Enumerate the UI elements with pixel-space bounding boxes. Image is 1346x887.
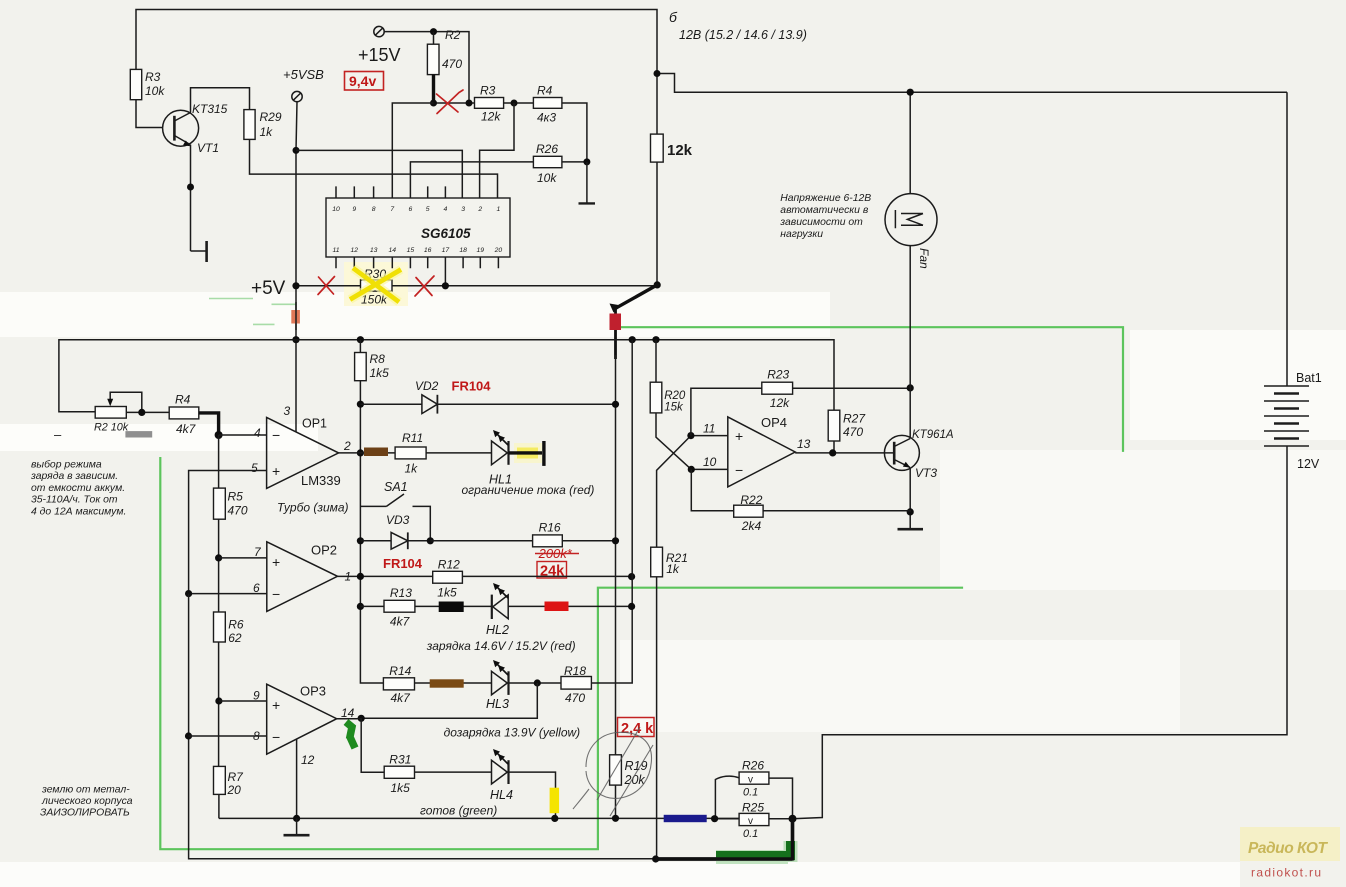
svg-text:R5: R5	[228, 490, 244, 504]
resistor R3 12k (horizontal)	[475, 98, 504, 109]
wire + node after R3	[504, 102, 534, 104]
resistor R13 4k7	[357, 603, 364, 610]
faint green dashes	[209, 299, 296, 325]
wire: OP4 pin10	[691, 468, 728, 470]
thick diagonal mod wire from +5V rail corner	[617, 285, 658, 308]
svg-text:6: 6	[409, 206, 413, 213]
wire: step from б node to 12В output line	[657, 74, 1287, 93]
marker: black blob after R13	[439, 602, 464, 613]
wire: R4 node down to R5	[218, 435, 220, 818]
svg-text:R31: R31	[389, 753, 411, 767]
op-amp OP1 (LM339)	[267, 417, 339, 488]
resistor 12k (top right)	[651, 134, 664, 162]
wire: OP4 output to VT3 base	[795, 452, 894, 454]
wire: R21 down to bottom wire	[656, 577, 658, 859]
wire: pot to R4	[126, 411, 169, 413]
resistor R20 15k	[655, 340, 657, 383]
svg-text:OP1: OP1	[302, 417, 327, 431]
ground (VT3 emitter)	[898, 528, 924, 531]
wire: OP3 pin9	[219, 700, 267, 702]
wire: R3 to VT1 base	[136, 100, 163, 128]
svg-text:12k: 12k	[481, 110, 501, 124]
svg-text:14: 14	[341, 706, 355, 720]
svg-text:выбор режима: выбор режима	[31, 458, 102, 470]
wire: OP3 output	[337, 718, 362, 720]
wire: VT3 collector up to fan	[909, 245, 911, 438]
wire: R22 right to VT3 emitter	[763, 511, 910, 512]
svg-text:10: 10	[703, 455, 717, 469]
LED HL1	[492, 441, 508, 465]
svg-text:VD3: VD3	[386, 513, 410, 527]
wire: R26 right node	[562, 161, 587, 163]
text block: землю от корпуса	[40, 785, 133, 819]
resistor R26 10k	[533, 156, 562, 167]
wire: OP1 output to R11	[339, 452, 396, 454]
LED HL4	[492, 760, 508, 784]
text block: выбор режима	[30, 458, 126, 517]
marker: red blob after HL2	[545, 602, 569, 612]
wire: R23 right to VT3 collector	[793, 387, 911, 389]
wire: OP2 output	[338, 575, 433, 577]
svg-text:R23: R23	[767, 368, 789, 382]
svg-text:12В (15.2 / 14.6 / 13.9): 12В (15.2 / 14.6 / 13.9)	[679, 28, 807, 42]
svg-text:470: 470	[228, 504, 248, 518]
SG6105 unconnected top pin stubs 10 9 8 5 4	[336, 186, 445, 198]
wire: VT1 emitter down	[190, 145, 192, 251]
wire: +5VSB vertical down to OP1 pin3	[296, 102, 297, 432]
ground (OP3 pin 12)	[296, 818, 298, 835]
svg-text:VD2: VD2	[415, 379, 439, 393]
op-amp OP2	[267, 542, 338, 612]
svg-text:7: 7	[390, 206, 394, 213]
svg-text:15k: 15k	[664, 402, 684, 414]
wire: VD3 node to R16	[430, 540, 532, 542]
svg-text:10k: 10k	[537, 171, 557, 185]
wire: R26 left to SG6105 pin 6	[410, 162, 533, 198]
svg-text:землю от метал-: землю от метал-	[41, 785, 130, 796]
resistor R8 1k5	[359, 340, 361, 353]
wire: OP3 pin12 ground lead	[296, 740, 298, 819]
wire: HL2 to right column	[508, 605, 631, 607]
wire: R12 to right column	[462, 575, 631, 577]
wire: OP1 pin5 to left column	[189, 471, 267, 594]
svg-text:R29: R29	[260, 110, 282, 124]
svg-text:−: −	[272, 586, 280, 602]
svg-text:+5V: +5V	[251, 278, 286, 299]
marker: brown blob after R14	[430, 679, 464, 687]
wire: R2 bottom to SG6105 pin 7	[392, 103, 433, 198]
svg-text:автоматически в: автоматически в	[780, 205, 869, 216]
resistor R14 4k7	[383, 678, 414, 690]
wire: +5VSB rail down through +5V rail	[292, 336, 299, 343]
svg-text:OP2: OP2	[311, 543, 337, 558]
text: Напряжение 6-12В	[779, 193, 871, 240]
wire: R2 bottom node across (cut by red X)	[434, 102, 475, 104]
green marker line right	[619, 327, 1123, 452]
resistor R31 1k5	[384, 766, 414, 778]
wire: HL4 down to ground rail	[509, 772, 556, 818]
fan motor	[885, 194, 937, 246]
label 9,4v red box	[345, 72, 384, 91]
wire: R23 left to pin11	[691, 388, 762, 435]
svg-text:3: 3	[284, 404, 291, 418]
marker: gray blob under R2 10k	[125, 431, 152, 437]
terminal screw +5VSB	[292, 91, 302, 101]
node б junction dot	[654, 70, 661, 77]
svg-text:12k: 12k	[770, 396, 790, 410]
svg-text:б: б	[669, 9, 678, 25]
svg-text:12: 12	[301, 753, 315, 767]
node OP3 pin9	[215, 697, 222, 704]
svg-text:R6: R6	[228, 618, 244, 632]
wire: R31 to HL4	[415, 771, 492, 773]
svg-text:HL4: HL4	[490, 788, 513, 802]
svg-text:R8: R8	[370, 352, 386, 366]
wire: node б top loop from R3 to top-right corner	[136, 10, 657, 74]
resistor R4 4к3	[533, 98, 562, 109]
svg-text:radiokot.ru: radiokot.ru	[1251, 866, 1321, 880]
wire: below red mark down the main sense line	[614, 308, 617, 359]
svg-text:1: 1	[497, 206, 501, 213]
svg-text:v: v	[748, 816, 753, 827]
svg-text:+15V: +15V	[358, 45, 401, 65]
svg-text:лического корпуса: лического корпуса	[41, 796, 133, 807]
svg-text:R11: R11	[402, 431, 423, 445]
marker: salmon blob on +5V column	[291, 310, 300, 324]
wire: OP3 pin8	[189, 735, 267, 737]
svg-text:R27: R27	[843, 412, 866, 426]
wire: R3/R4 node to SG6105 pin 2	[480, 103, 514, 198]
wire: R4 right thick to OP1 pin4 node	[199, 413, 219, 435]
svg-text:4k7: 4k7	[391, 691, 412, 705]
wire: OP1 pin4	[219, 434, 267, 436]
resistor R3 10k (top left)	[130, 69, 141, 99]
svg-text:17: 17	[442, 247, 450, 254]
svg-text:FR104: FR104	[383, 556, 423, 571]
wire: OP4 pin11	[691, 435, 728, 437]
svg-text:нагрузки: нагрузки	[780, 229, 823, 240]
label 24k red box	[537, 562, 567, 579]
wire: R2 bottom thick lead	[432, 75, 435, 103]
svg-text:SG6105: SG6105	[421, 226, 471, 241]
op-amp OP4	[728, 417, 795, 487]
svg-text:4k7: 4k7	[176, 422, 197, 436]
svg-text:−: −	[272, 427, 280, 443]
SG6105 bottom pin stubs 11-20	[336, 257, 498, 268]
marker: green squiggle at OP3 output	[346, 722, 355, 748]
svg-text:VT3: VT3	[915, 466, 937, 480]
marker: brown blob at OP1 output	[364, 448, 388, 457]
svg-text:OP3: OP3	[300, 684, 326, 699]
svg-text:2k4: 2k4	[741, 519, 762, 533]
svg-text:62: 62	[228, 631, 242, 645]
wire: R26 right down to node	[769, 778, 793, 819]
svg-text:Fan: Fan	[917, 248, 931, 269]
svg-text:Турбо (зима): Турбо (зима)	[277, 501, 349, 515]
resistor R18 470	[561, 677, 591, 690]
wire: HL3 to R18	[509, 682, 562, 684]
svg-text:Радио КОТ: Радио КОТ	[1248, 840, 1329, 857]
svg-text:R26: R26	[742, 759, 764, 773]
wire: +5VSB to SG6105 pin 3	[296, 150, 462, 198]
svg-text:15: 15	[407, 247, 415, 254]
marker: navy blob on ground rail	[664, 815, 707, 822]
wire: +15V to R2 and to R3 12k	[384, 32, 469, 103]
shunt resistor R26 0.1	[739, 772, 769, 784]
svg-text:R25: R25	[742, 801, 764, 815]
wire: OP2 pin6	[189, 593, 267, 595]
diode VD3 FR104	[357, 537, 364, 544]
wire: output bus vertical	[360, 381, 383, 683]
wire: R25 leads	[715, 818, 793, 820]
label 2,4 k red box	[618, 718, 655, 737]
wire: OP2 pin7	[219, 557, 267, 559]
svg-text:470: 470	[843, 425, 863, 439]
wire: OP3 output down to R31	[361, 718, 384, 772]
svg-text:HL3: HL3	[486, 697, 509, 711]
LED HL2 (points left)	[491, 595, 493, 619]
resistor R12 1k5	[433, 571, 463, 583]
svg-text:9: 9	[352, 206, 356, 213]
svg-text:18: 18	[459, 247, 467, 254]
SG6105 pin numbers top row	[332, 206, 500, 213]
node +5VSB junction	[293, 147, 300, 154]
wire: comparator supply rail	[59, 340, 834, 412]
wire: R26 left squiggle down to node	[715, 776, 739, 819]
wire: R27 bottom to output line	[833, 441, 835, 453]
wire: VT1 collector to R29 top	[191, 88, 250, 113]
svg-text:1k: 1k	[405, 462, 419, 476]
svg-text:+: +	[272, 697, 280, 713]
svg-text:ЗАИЗОЛИРОВАТЬ: ЗАИЗОЛИРОВАТЬ	[40, 807, 130, 818]
diode VD2 FR104	[360, 403, 422, 405]
resistor R23 12k	[762, 382, 793, 394]
svg-text:13: 13	[797, 437, 811, 451]
svg-text:зависимости от: зависимости от	[779, 217, 863, 228]
svg-text:R13: R13	[390, 586, 412, 600]
resistor R16	[533, 535, 563, 547]
svg-text:+5VSB: +5VSB	[283, 67, 324, 82]
svg-text:4: 4	[254, 426, 261, 440]
SG6105 pin numbers bottom row	[332, 247, 502, 254]
svg-text:R18: R18	[564, 664, 586, 678]
svg-text:5: 5	[426, 206, 430, 213]
wire: left column down to bottom	[189, 594, 656, 859]
svg-text:1k5: 1k5	[370, 366, 390, 380]
svg-text:+: +	[272, 463, 280, 479]
svg-text:R16: R16	[539, 521, 561, 535]
wire: R13 to HL2	[415, 605, 492, 607]
resistor R6 62	[214, 612, 226, 642]
resistor R11 1k	[395, 447, 426, 459]
marker: yellow bar at HL4	[550, 788, 560, 814]
potentiometer R2 10k	[95, 407, 126, 419]
shunt resistor R25 0.1	[739, 813, 769, 825]
svg-text:v: v	[748, 775, 753, 786]
svg-text:470: 470	[442, 57, 462, 71]
resistor R5 470	[214, 488, 226, 519]
watermark radiokot	[1240, 827, 1340, 861]
yellow X over R30	[350, 268, 401, 302]
wire: R20 bottom diagonal to OP4 pin10	[656, 413, 691, 470]
svg-text:VT1: VT1	[197, 141, 219, 155]
svg-text:2: 2	[343, 439, 351, 453]
svg-text:зарядка 14.6V / 15.2V (red): зарядка 14.6V / 15.2V (red)	[426, 639, 576, 653]
marker: yellow highlight on HL1 wire	[517, 448, 538, 459]
svg-text:+: +	[735, 428, 743, 444]
wire: fan top to 12В line	[909, 92, 911, 193]
svg-text:1k5: 1k5	[437, 586, 457, 600]
svg-text:8: 8	[372, 206, 376, 213]
marker: dark green thick corner bottom	[716, 841, 791, 862]
svg-text:R2: R2	[445, 28, 461, 42]
resistor R22 2k4	[734, 505, 763, 517]
IC SG6105	[326, 198, 510, 257]
pencil scribble circle around R19	[573, 732, 652, 809]
svg-text:KT961A: KT961A	[912, 429, 954, 441]
svg-text:11: 11	[703, 422, 715, 436]
wire: right column (R18 bus)	[591, 340, 632, 683]
resistor R21 1k	[651, 547, 663, 577]
svg-text:2,4 k: 2,4 k	[621, 721, 654, 737]
svg-text:1k: 1k	[666, 562, 680, 576]
svg-text:–: –	[54, 427, 62, 442]
svg-text:12V: 12V	[1297, 457, 1320, 471]
red X at R2 bottom	[437, 90, 464, 114]
marker: dark red blob below diagonal	[610, 314, 622, 331]
bottom ground rail	[219, 817, 739, 819]
svg-text:1k5: 1k5	[391, 781, 411, 795]
wire: R22 from pin10	[691, 469, 733, 510]
svg-text:13: 13	[370, 247, 378, 254]
node OP1 output	[357, 449, 364, 456]
svg-text:R20: R20	[664, 390, 686, 402]
wire: pin 17 to +5V rail	[444, 257, 446, 286]
svg-text:35-110А/ч. Ток от: 35-110А/ч. Ток от	[31, 495, 118, 506]
svg-text:заряда в зависим.: заряда в зависим.	[30, 471, 118, 482]
wire: R14 to HL3	[415, 682, 492, 684]
wire: HL1 cathode thick to terminal	[509, 451, 543, 454]
ground (VT1 emitter, sideways)	[191, 250, 207, 252]
node on emitter wire	[187, 184, 194, 191]
resistor R19 20k (crossed out)	[610, 755, 622, 785]
wire: R21 top diagonal to OP4 pin11	[657, 436, 691, 548]
red X on +5V rail right	[415, 276, 434, 296]
ground below R4/R26 node	[586, 162, 588, 204]
svg-text:20: 20	[494, 247, 503, 254]
wire: VT3 emitter down to ground	[909, 467, 911, 529]
svg-text:10: 10	[332, 206, 340, 213]
svg-text:3: 3	[461, 206, 465, 213]
svg-text:5: 5	[251, 461, 258, 475]
svg-text:4 до 12А максимум.: 4 до 12А максимум.	[31, 506, 126, 517]
svg-text:14: 14	[389, 247, 397, 254]
red X on +5V rail left	[318, 277, 335, 295]
wire: б vertical down to 12k resistor	[656, 74, 658, 285]
svg-text:−: −	[272, 729, 280, 745]
svg-text:HL2: HL2	[486, 623, 509, 637]
svg-text:0.1: 0.1	[743, 828, 758, 840]
terminal screw +15V	[374, 26, 384, 36]
svg-text:9,4v: 9,4v	[349, 73, 376, 89]
svg-text:LM339: LM339	[301, 473, 341, 488]
svg-text:R26: R26	[536, 142, 558, 156]
op-amp OP3	[267, 684, 337, 754]
green marker rectangle left	[160, 457, 963, 849]
svg-text:R3: R3	[480, 84, 496, 98]
resistor R30 150k (crossed out)	[361, 280, 393, 291]
wire: HL3 node down to OP3 output	[361, 683, 537, 718]
svg-text:R14: R14	[389, 664, 411, 678]
svg-text:−: −	[735, 462, 743, 478]
svg-text:12: 12	[351, 247, 359, 254]
svg-text:4к3: 4к3	[537, 111, 556, 125]
svg-text:R19: R19	[625, 759, 648, 773]
LED HL3	[492, 671, 508, 695]
wire: R4 right down to R26 node	[562, 103, 587, 162]
svg-text:19: 19	[477, 247, 485, 254]
svg-text:KT315: KT315	[192, 102, 228, 116]
svg-text:+: +	[272, 554, 280, 570]
svg-text:11: 11	[332, 247, 339, 254]
resistor R29 1k	[244, 110, 255, 140]
svg-text:FR104: FR104	[452, 379, 492, 394]
svg-text:SA1: SA1	[384, 480, 408, 494]
svg-text:R4: R4	[537, 84, 553, 98]
resistor R27 470	[828, 410, 840, 441]
svg-text:дозарядка 13.9V (yellow): дозарядка 13.9V (yellow)	[444, 726, 581, 740]
svg-text:470: 470	[565, 691, 585, 705]
svg-text:R7: R7	[228, 770, 245, 784]
svg-text:R12: R12	[438, 558, 460, 572]
svg-text:4k7: 4k7	[390, 615, 411, 629]
svg-text:готов (green): готов (green)	[420, 804, 497, 818]
svg-text:0.1: 0.1	[743, 787, 758, 799]
svg-text:2: 2	[477, 206, 482, 213]
wire: R29 bottom to SG6105 pin 1	[250, 139, 498, 198]
svg-text:4: 4	[444, 206, 448, 213]
svg-text:20: 20	[227, 783, 242, 797]
wire: R11 to HL1	[426, 452, 491, 454]
svg-text:R22: R22	[740, 493, 762, 507]
transistor VT3 KT961A	[884, 435, 919, 470]
resistor R2 470	[433, 32, 435, 45]
transistor VT1 KT315	[163, 110, 199, 146]
svg-text:R2 10k: R2 10k	[94, 422, 129, 434]
svg-text:OP4: OP4	[761, 415, 787, 430]
svg-text:R4: R4	[175, 393, 191, 407]
svg-text:от емкости аккум.: от емкости аккум.	[31, 483, 125, 494]
wire: battery negative return path	[793, 446, 1288, 819]
svg-text:16: 16	[424, 247, 432, 254]
node OP2 pin7	[215, 554, 222, 561]
svg-text:R3: R3	[145, 70, 161, 84]
resistor R7 20	[214, 766, 226, 794]
svg-text:12k: 12k	[667, 142, 693, 159]
svg-text:Напряжение 6-12В: Напряжение 6-12В	[780, 193, 871, 204]
resistor R4 4k7	[169, 407, 199, 419]
svg-text:ограничение тока (red): ограничение тока (red)	[462, 483, 595, 497]
wire: thick ground return bottom	[656, 819, 793, 861]
svg-text:10k: 10k	[145, 84, 165, 98]
svg-text:Bat1: Bat1	[1296, 371, 1322, 385]
svg-text:1k: 1k	[260, 125, 274, 139]
